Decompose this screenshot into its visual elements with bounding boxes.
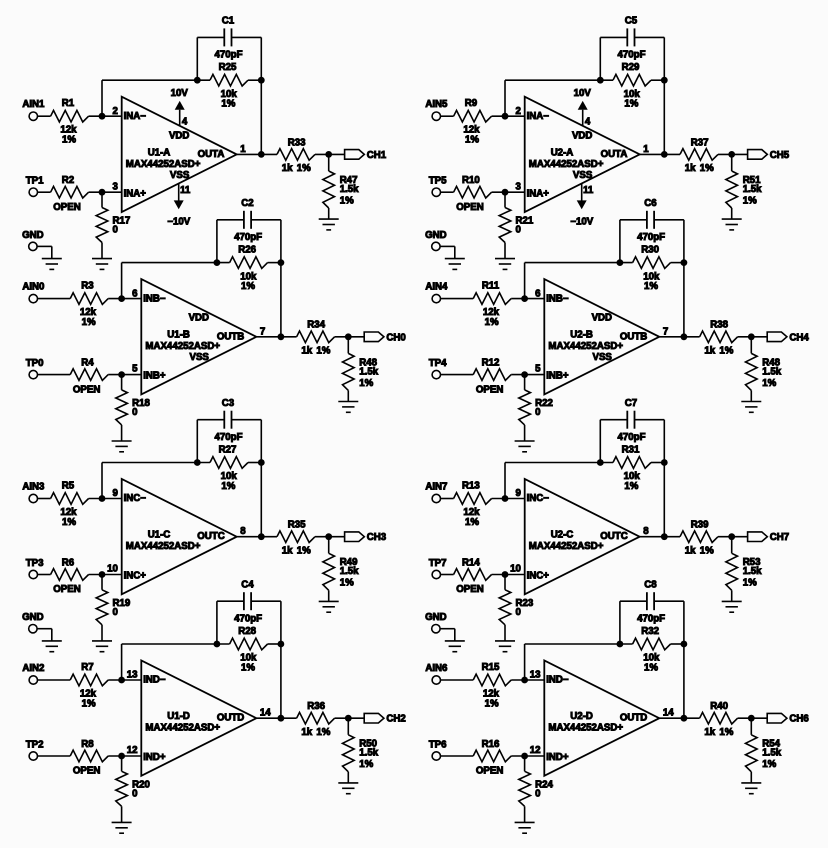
svg-text:VDD: VDD — [189, 313, 209, 324]
svg-text:CH2: CH2 — [386, 714, 405, 725]
svg-text:OUTD: OUTD — [217, 713, 244, 724]
svg-text:C4: C4 — [241, 579, 254, 590]
svg-text:8: 8 — [240, 526, 246, 537]
svg-text:470pF: 470pF — [637, 614, 665, 625]
svg-text:1%: 1% — [644, 662, 658, 673]
svg-text:11: 11 — [583, 185, 594, 196]
svg-text:GND: GND — [22, 612, 44, 623]
svg-text:TP7: TP7 — [429, 558, 447, 569]
svg-text:8: 8 — [643, 526, 649, 537]
svg-text:INB+: INB+ — [546, 371, 569, 382]
svg-text:C2: C2 — [241, 198, 253, 209]
svg-text:1k: 1k — [282, 163, 293, 174]
svg-text:R10: R10 — [462, 175, 480, 186]
svg-text:1%: 1% — [241, 281, 255, 292]
svg-text:R15: R15 — [482, 662, 500, 673]
svg-text:470pF: 470pF — [637, 232, 665, 243]
svg-text:C6: C6 — [644, 198, 657, 209]
svg-text:U1-B: U1-B — [167, 330, 190, 341]
svg-text:1%: 1% — [624, 481, 638, 492]
svg-text:1.5k: 1.5k — [762, 748, 781, 759]
svg-text:INB−: INB− — [546, 293, 569, 304]
svg-text:OUTC: OUTC — [197, 531, 224, 542]
svg-text:1k: 1k — [685, 163, 696, 174]
svg-text:INC+: INC+ — [124, 571, 147, 582]
svg-text:1.5k: 1.5k — [359, 748, 378, 759]
svg-text:1k: 1k — [301, 727, 312, 738]
svg-text:1%: 1% — [719, 727, 733, 738]
svg-text:1%: 1% — [465, 517, 479, 528]
svg-text:CH4: CH4 — [789, 332, 809, 343]
svg-text:INA+: INA+ — [124, 188, 147, 199]
svg-text:1k: 1k — [685, 546, 696, 557]
svg-text:9: 9 — [516, 488, 522, 499]
svg-text:CH6: CH6 — [789, 714, 809, 725]
svg-text:INB+: INB+ — [143, 371, 166, 382]
svg-text:1%: 1% — [316, 727, 330, 738]
svg-text:R25: R25 — [219, 62, 237, 73]
svg-text:1k: 1k — [301, 346, 312, 357]
svg-text:R3: R3 — [81, 280, 94, 291]
svg-text:CH5: CH5 — [770, 150, 790, 161]
svg-text:AIN4: AIN4 — [425, 282, 448, 293]
svg-text:OPEN: OPEN — [476, 384, 503, 395]
svg-text:13: 13 — [530, 670, 541, 681]
svg-text:5: 5 — [132, 364, 138, 375]
svg-text:1%: 1% — [62, 517, 76, 528]
svg-text:470pF: 470pF — [215, 50, 243, 61]
svg-text:R1: R1 — [62, 98, 75, 109]
svg-text:U2-C: U2-C — [551, 530, 574, 541]
svg-text:U1-D: U1-D — [167, 711, 190, 722]
svg-text:IND+: IND+ — [546, 752, 569, 763]
svg-text:9: 9 — [113, 488, 119, 499]
svg-text:0: 0 — [113, 607, 118, 618]
svg-text:AIN7: AIN7 — [425, 481, 447, 492]
svg-text:VDD: VDD — [169, 130, 189, 141]
svg-text:1.5k: 1.5k — [359, 366, 378, 377]
svg-text:0: 0 — [535, 407, 540, 418]
svg-text:MAX44252ASD+: MAX44252ASD+ — [548, 341, 623, 352]
svg-text:R7: R7 — [81, 662, 93, 673]
svg-text:U1-C: U1-C — [148, 530, 171, 541]
svg-text:R13: R13 — [462, 480, 480, 491]
svg-text:12: 12 — [530, 745, 541, 756]
svg-text:0: 0 — [535, 789, 540, 800]
svg-text:MAX44252ASD+: MAX44252ASD+ — [145, 341, 220, 352]
svg-text:1%: 1% — [359, 759, 373, 770]
svg-text:INA+: INA+ — [527, 188, 550, 199]
svg-text:R6: R6 — [62, 558, 75, 569]
svg-text:1%: 1% — [241, 662, 255, 673]
svg-text:1%: 1% — [340, 578, 354, 589]
svg-text:6: 6 — [535, 288, 541, 299]
svg-text:1%: 1% — [465, 135, 479, 146]
svg-text:470pF: 470pF — [215, 432, 243, 443]
svg-text:7: 7 — [260, 326, 265, 337]
svg-text:13: 13 — [127, 670, 138, 681]
svg-text:1%: 1% — [644, 281, 658, 292]
svg-text:1%: 1% — [221, 481, 235, 492]
svg-text:1k: 1k — [704, 727, 715, 738]
svg-text:R5: R5 — [62, 480, 75, 491]
svg-text:1%: 1% — [719, 346, 733, 357]
svg-text:1%: 1% — [624, 99, 638, 110]
svg-text:VSS: VSS — [190, 352, 210, 363]
svg-text:1%: 1% — [297, 546, 311, 557]
svg-text:OUTD: OUTD — [620, 713, 647, 724]
svg-text:R33: R33 — [288, 137, 306, 148]
svg-text:R16: R16 — [482, 739, 500, 750]
svg-text:MAX44252ASD+: MAX44252ASD+ — [548, 723, 623, 734]
svg-text:INC+: INC+ — [527, 571, 550, 582]
svg-text:AIN0: AIN0 — [22, 282, 44, 293]
svg-text:1.5k: 1.5k — [762, 366, 781, 377]
svg-text:R27: R27 — [219, 444, 237, 455]
svg-text:VSS: VSS — [593, 352, 613, 363]
svg-text:1k: 1k — [704, 346, 715, 357]
svg-text:R12: R12 — [482, 358, 500, 369]
svg-text:IND+: IND+ — [143, 752, 166, 763]
svg-text:6: 6 — [132, 288, 138, 299]
svg-text:R35: R35 — [288, 520, 306, 531]
svg-text:R8: R8 — [81, 739, 94, 750]
svg-text:IND−: IND− — [546, 675, 569, 686]
svg-text:1%: 1% — [316, 346, 330, 357]
svg-text:INC−: INC− — [124, 493, 147, 504]
svg-text:1%: 1% — [700, 546, 714, 557]
svg-text:R38: R38 — [710, 320, 728, 331]
svg-text:10V: 10V — [171, 88, 189, 99]
svg-text:C8: C8 — [644, 579, 657, 590]
svg-text:0: 0 — [516, 607, 521, 618]
svg-text:AIN1: AIN1 — [22, 99, 45, 110]
svg-text:IND−: IND− — [143, 675, 166, 686]
svg-text:R36: R36 — [307, 701, 325, 712]
svg-text:R39: R39 — [691, 520, 709, 531]
svg-text:2: 2 — [516, 106, 521, 117]
svg-text:R2: R2 — [62, 175, 74, 186]
svg-text:CH7: CH7 — [770, 532, 789, 543]
svg-text:TP2: TP2 — [26, 740, 44, 751]
svg-text:470pF: 470pF — [234, 232, 262, 243]
svg-text:OPEN: OPEN — [53, 202, 80, 213]
svg-text:INC−: INC− — [527, 493, 550, 504]
svg-text:1%: 1% — [82, 699, 96, 710]
svg-text:11: 11 — [180, 185, 191, 196]
svg-text:R37: R37 — [691, 137, 709, 148]
svg-text:0: 0 — [132, 407, 137, 418]
svg-text:OUTC: OUTC — [600, 531, 627, 542]
svg-text:VSS: VSS — [170, 170, 190, 181]
svg-text:7: 7 — [663, 326, 668, 337]
svg-text:INB−: INB− — [143, 293, 166, 304]
svg-text:OPEN: OPEN — [456, 202, 483, 213]
svg-text:GND: GND — [22, 230, 44, 241]
svg-text:R14: R14 — [462, 558, 480, 569]
svg-text:4: 4 — [585, 117, 591, 128]
svg-text:4: 4 — [182, 117, 188, 128]
svg-text:470pF: 470pF — [618, 432, 646, 443]
svg-text:GND: GND — [425, 230, 447, 241]
svg-text:R32: R32 — [641, 626, 659, 637]
svg-text:1k: 1k — [282, 546, 293, 557]
svg-text:R9: R9 — [465, 98, 478, 109]
svg-text:14: 14 — [663, 708, 674, 719]
svg-text:1%: 1% — [221, 99, 235, 110]
svg-text:OPEN: OPEN — [73, 766, 100, 777]
svg-text:−10V: −10V — [570, 217, 593, 228]
svg-text:OPEN: OPEN — [73, 384, 100, 395]
svg-text:MAX44252ASD+: MAX44252ASD+ — [529, 159, 604, 170]
svg-text:CH3: CH3 — [367, 532, 387, 543]
svg-text:TP3: TP3 — [26, 558, 44, 569]
svg-text:1%: 1% — [485, 699, 499, 710]
svg-text:VDD: VDD — [592, 313, 612, 324]
svg-text:TP5: TP5 — [429, 176, 447, 187]
svg-text:3: 3 — [516, 181, 522, 192]
svg-text:AIN3: AIN3 — [22, 481, 45, 492]
svg-text:VSS: VSS — [573, 170, 593, 181]
svg-text:−10V: −10V — [167, 217, 190, 228]
svg-text:C7: C7 — [625, 398, 637, 409]
svg-text:1: 1 — [643, 144, 649, 155]
svg-text:1: 1 — [240, 144, 246, 155]
svg-text:1.5k: 1.5k — [340, 184, 359, 195]
svg-text:OUTA: OUTA — [601, 149, 628, 160]
svg-text:TP1: TP1 — [26, 176, 44, 187]
svg-text:1%: 1% — [82, 317, 96, 328]
svg-text:C3: C3 — [222, 398, 235, 409]
svg-text:0: 0 — [516, 225, 521, 236]
svg-text:C1: C1 — [222, 16, 235, 27]
svg-text:TP4: TP4 — [429, 358, 447, 369]
svg-text:0: 0 — [132, 789, 137, 800]
svg-text:1.5k: 1.5k — [743, 184, 762, 195]
svg-text:0: 0 — [113, 225, 118, 236]
svg-text:1%: 1% — [340, 195, 354, 206]
svg-text:U2-D: U2-D — [570, 711, 593, 722]
svg-text:14: 14 — [260, 708, 271, 719]
svg-text:1%: 1% — [297, 163, 311, 174]
svg-text:5: 5 — [535, 364, 541, 375]
svg-text:CH0: CH0 — [386, 332, 405, 343]
svg-text:1%: 1% — [762, 378, 776, 389]
svg-text:1%: 1% — [62, 135, 76, 146]
svg-text:10: 10 — [107, 564, 118, 575]
svg-text:OPEN: OPEN — [476, 766, 503, 777]
svg-text:OUTB: OUTB — [620, 331, 647, 342]
svg-text:MAX44252ASD+: MAX44252ASD+ — [145, 723, 220, 734]
svg-text:1%: 1% — [743, 578, 757, 589]
svg-text:GND: GND — [425, 612, 447, 623]
svg-text:R11: R11 — [482, 280, 500, 291]
svg-text:INA−: INA− — [527, 111, 550, 122]
svg-text:2: 2 — [113, 106, 118, 117]
svg-text:R40: R40 — [710, 701, 728, 712]
svg-text:TP0: TP0 — [26, 358, 44, 369]
svg-text:1%: 1% — [485, 317, 499, 328]
svg-text:1.5k: 1.5k — [340, 566, 359, 577]
svg-text:R29: R29 — [622, 62, 640, 73]
svg-text:10V: 10V — [574, 88, 592, 99]
svg-text:1%: 1% — [700, 163, 714, 174]
svg-text:CH1: CH1 — [367, 150, 387, 161]
svg-text:R31: R31 — [622, 444, 640, 455]
svg-text:OPEN: OPEN — [53, 584, 80, 595]
svg-text:R30: R30 — [641, 245, 659, 256]
svg-text:1.5k: 1.5k — [743, 566, 762, 577]
svg-text:U2-B: U2-B — [570, 330, 593, 341]
svg-text:MAX44252ASD+: MAX44252ASD+ — [126, 541, 201, 552]
svg-text:VDD: VDD — [572, 130, 592, 141]
svg-text:R34: R34 — [307, 320, 325, 331]
svg-text:AIN5: AIN5 — [425, 99, 448, 110]
svg-text:C5: C5 — [625, 16, 638, 27]
svg-text:12: 12 — [127, 745, 138, 756]
svg-text:U2-A: U2-A — [551, 147, 574, 158]
svg-text:470pF: 470pF — [618, 50, 646, 61]
svg-text:INA−: INA− — [124, 111, 147, 122]
svg-text:TP6: TP6 — [429, 740, 447, 751]
svg-text:AIN6: AIN6 — [425, 663, 448, 674]
svg-text:470pF: 470pF — [234, 614, 262, 625]
svg-text:1%: 1% — [743, 195, 757, 206]
svg-text:MAX44252ASD+: MAX44252ASD+ — [529, 541, 604, 552]
svg-text:1%: 1% — [762, 759, 776, 770]
svg-text:OUTA: OUTA — [198, 149, 225, 160]
svg-text:R28: R28 — [238, 626, 256, 637]
svg-text:AIN2: AIN2 — [22, 663, 44, 674]
svg-text:R4: R4 — [81, 358, 94, 369]
svg-text:R26: R26 — [238, 245, 256, 256]
svg-text:OPEN: OPEN — [456, 584, 483, 595]
svg-text:U1-A: U1-A — [148, 147, 171, 158]
svg-text:10: 10 — [510, 564, 521, 575]
svg-text:OUTB: OUTB — [217, 331, 244, 342]
svg-text:3: 3 — [113, 181, 119, 192]
svg-text:1%: 1% — [359, 378, 373, 389]
svg-text:MAX44252ASD+: MAX44252ASD+ — [126, 159, 201, 170]
